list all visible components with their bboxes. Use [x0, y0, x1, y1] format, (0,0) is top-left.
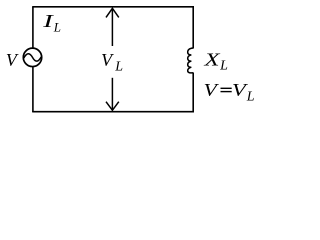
- wire bottom: [32, 111, 194, 113]
- wire top: [32, 6, 194, 8]
- svg-text:L: L: [114, 60, 123, 75]
- wire left upper: [32, 7, 34, 49]
- svg-text:L: L: [219, 59, 228, 74]
- ac source V1: [23, 48, 41, 66]
- svg-text:V: V: [204, 80, 220, 100]
- svg-text:V: V: [6, 50, 19, 70]
- voltage arrow down: [106, 78, 119, 111]
- voltage arrow up: [106, 8, 119, 46]
- svg-text:I: I: [42, 11, 55, 31]
- wire right upper: [192, 7, 194, 49]
- svg-text:V: V: [101, 50, 114, 70]
- inductor L1 coil: [188, 48, 194, 73]
- svg-text:L: L: [53, 20, 61, 35]
- wire left lower: [32, 67, 34, 113]
- wire right lower: [192, 73, 194, 113]
- svg-text:X: X: [203, 50, 221, 70]
- svg-text:L: L: [246, 90, 255, 105]
